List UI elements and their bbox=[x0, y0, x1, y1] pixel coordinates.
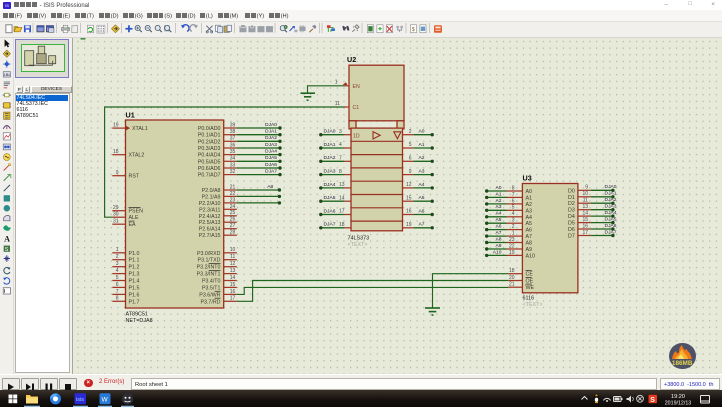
svg-text:A9: A9 bbox=[496, 243, 502, 249]
svg-text:DJA5: DJA5 bbox=[265, 155, 277, 161]
svg-text:XTAL2: XTAL2 bbox=[129, 153, 145, 159]
wire U1 P3.7/RD to U3 OE bbox=[237, 281, 509, 302]
U2 pin 19 Q7 (right) with net A7 bbox=[403, 227, 414, 229]
U3 pin 16 D6 (right) with net DJA6 bbox=[578, 228, 591, 230]
svg-text:P3.1/TXD: P3.1/TXD bbox=[198, 258, 221, 264]
svg-text:$: $ bbox=[412, 27, 415, 33]
svg-text:2: 2 bbox=[116, 254, 119, 260]
svg-text:P2.0/A8: P2.0/A8 bbox=[202, 188, 221, 194]
svg-text:A0: A0 bbox=[496, 185, 502, 191]
svg-text:1: 1 bbox=[512, 231, 515, 237]
svg-text:22: 22 bbox=[509, 243, 515, 249]
U1 pin 30 ALE (left) bbox=[112, 216, 125, 218]
U1 pin 13 P3.3/INT1 bbox=[224, 273, 237, 275]
svg-text:9: 9 bbox=[116, 170, 119, 176]
U1 pin 19 XTAL1 (left) bbox=[112, 127, 125, 129]
svg-text:LBL: LBL bbox=[4, 73, 11, 77]
svg-text:A2: A2 bbox=[496, 198, 502, 204]
svg-text:U1: U1 bbox=[126, 111, 135, 120]
svg-text:18: 18 bbox=[509, 268, 515, 274]
U2 pin 11 C1 stub bbox=[344, 106, 349, 108]
svg-text:6: 6 bbox=[512, 198, 515, 204]
overview window bbox=[15, 39, 69, 78]
window title bar bbox=[0, 0, 722, 10]
U3 pin 18 CE bbox=[508, 273, 522, 275]
U1 pin 38 P0.1/AD1 with wire to net DJA1 bbox=[224, 134, 237, 136]
svg-text:P1.0: P1.0 bbox=[129, 251, 140, 257]
U2 buffer triangle right bbox=[373, 132, 380, 139]
svg-text:DJA4: DJA4 bbox=[605, 210, 617, 216]
svg-text:38: 38 bbox=[230, 129, 236, 135]
U2 pin 7 D2 (left) with net DJA2 bbox=[344, 160, 351, 162]
svg-text:5: 5 bbox=[512, 205, 515, 211]
svg-text:A5: A5 bbox=[496, 217, 502, 223]
svg-text:P1.5: P1.5 bbox=[129, 285, 140, 291]
svg-text:DJA0: DJA0 bbox=[324, 129, 336, 135]
svg-text:19: 19 bbox=[406, 222, 412, 228]
U3 pin 23 A8 (left) with net A8 bbox=[507, 242, 523, 244]
svg-text:RST: RST bbox=[129, 174, 140, 180]
U2 pin 16 Q6 (right) with net A6 bbox=[403, 214, 414, 216]
latch U2 74LS373 control block bbox=[349, 65, 404, 121]
ground symbol at U2 EN bbox=[301, 92, 316, 94]
svg-text:32: 32 bbox=[230, 169, 236, 175]
left tool column bbox=[0, 38, 14, 374]
svg-text:A7: A7 bbox=[526, 234, 533, 240]
svg-text:P2.7/A15: P2.7/A15 bbox=[199, 233, 221, 239]
svg-text:19: 19 bbox=[113, 123, 119, 129]
svg-text:isis: isis bbox=[76, 397, 84, 403]
svg-text:A1: A1 bbox=[419, 142, 425, 148]
svg-text:23: 23 bbox=[509, 237, 515, 243]
U2 pin 4 D1 (left) with net DJA1 bbox=[344, 147, 351, 149]
windows taskbar bbox=[0, 390, 722, 407]
svg-text:19:20: 19:20 bbox=[671, 393, 685, 399]
svg-text:33: 33 bbox=[230, 162, 236, 168]
U1 pin 9 RST (left) bbox=[112, 175, 125, 177]
mcu U1 AT89C51 body bbox=[126, 120, 224, 308]
U1 P2.1 wire (net A9) bbox=[237, 195, 280, 197]
U1 pin 10 P3.0/RXD bbox=[224, 252, 237, 254]
svg-text:7: 7 bbox=[512, 192, 515, 198]
menu bar bbox=[0, 10, 722, 22]
U2 pin 5 Q1 (right) with net A1 bbox=[403, 147, 414, 149]
U1 pin 12 P3.2/INT0 bbox=[224, 266, 237, 268]
svg-text:7: 7 bbox=[116, 289, 119, 295]
svg-text:DJA6: DJA6 bbox=[605, 223, 617, 229]
svg-text:11: 11 bbox=[335, 101, 340, 107]
svg-text:14: 14 bbox=[582, 211, 588, 217]
toolbar bbox=[0, 22, 722, 38]
U1 pin 2 P1.1 (left) bbox=[112, 259, 125, 261]
svg-text:19: 19 bbox=[509, 250, 515, 256]
svg-text:OE: OE bbox=[526, 279, 534, 285]
U2 pin 8 D3 (left) with net DJA3 bbox=[344, 174, 351, 176]
svg-text:24: 24 bbox=[230, 204, 236, 210]
U3 pin 17 D7 (right) with net DJA7 bbox=[578, 235, 591, 237]
svg-text:6: 6 bbox=[409, 156, 412, 162]
U3 pin 11 D2 (right) with net DJA2 bbox=[578, 202, 591, 204]
svg-text:3: 3 bbox=[116, 261, 119, 267]
U2 pin 14 D5 (left) with net DJA5 bbox=[344, 200, 351, 202]
U3 pin 10 D1 (right) with net DJA1 bbox=[578, 196, 591, 198]
svg-text:16: 16 bbox=[582, 223, 588, 229]
device list bbox=[15, 93, 71, 373]
svg-text:DJA1: DJA1 bbox=[324, 142, 336, 148]
U1 pin 6 P1.5 (left) bbox=[112, 286, 125, 288]
svg-text:D5: D5 bbox=[568, 221, 575, 227]
svg-text:A2: A2 bbox=[526, 202, 533, 208]
svg-text:DJA2: DJA2 bbox=[324, 155, 336, 161]
svg-text:A10: A10 bbox=[493, 249, 502, 255]
U1 pin 26 P2.5/A13 bbox=[224, 221, 237, 223]
svg-text:W: W bbox=[102, 396, 109, 403]
U3 pin 13 D3 (right) with net DJA3 bbox=[578, 209, 591, 211]
svg-text:13: 13 bbox=[582, 204, 588, 210]
svg-text:11: 11 bbox=[583, 198, 588, 204]
wire U2 EN to ground bbox=[308, 86, 345, 93]
svg-text:ALE: ALE bbox=[129, 215, 139, 221]
svg-text:8: 8 bbox=[116, 296, 119, 302]
svg-text:P0.4/AD4: P0.4/AD4 bbox=[198, 153, 221, 159]
U2 pin 1 EN stub and marker bbox=[344, 85, 349, 87]
svg-text:5: 5 bbox=[409, 142, 412, 148]
svg-text:DJA0: DJA0 bbox=[605, 184, 617, 190]
svg-text:DJA6: DJA6 bbox=[265, 162, 277, 168]
U2 pin 2 Q0 (right) with net A0 bbox=[403, 134, 414, 136]
U1 pin 27 P2.6/A14 bbox=[224, 228, 237, 230]
svg-text:P2.4/A12: P2.4/A12 bbox=[199, 214, 221, 220]
U1 pin 31 EA (left) bbox=[112, 223, 125, 225]
svg-text:CE: CE bbox=[526, 272, 534, 278]
svg-text:3: 3 bbox=[512, 218, 515, 224]
U1 pin 32 P0.7/AD7 with wire to net DJA7 bbox=[224, 174, 237, 176]
U3 pin 20 OE bbox=[508, 280, 522, 282]
U1 pin 5 P1.4 (left) bbox=[112, 280, 125, 282]
wire ALE to U2 C1 bbox=[105, 107, 345, 217]
svg-text:NET=DJA8: NET=DJA8 bbox=[126, 318, 153, 324]
U1 pin 8 P1.7 (left) bbox=[112, 300, 125, 302]
svg-text:12: 12 bbox=[230, 261, 236, 267]
U1 pin 24 P2.3/A11 bbox=[224, 208, 237, 210]
svg-text:7: 7 bbox=[339, 156, 342, 162]
svg-text:A0: A0 bbox=[526, 189, 533, 195]
svg-text:EN: EN bbox=[353, 84, 360, 90]
svg-text:A1: A1 bbox=[496, 191, 502, 197]
U1 pin 3 P1.2 (left) bbox=[112, 266, 125, 268]
schematic canvas bbox=[72, 38, 722, 374]
svg-text:S: S bbox=[5, 247, 9, 253]
U1 pin 37 P0.2/AD2 with wire to net DJA2 bbox=[224, 140, 237, 142]
svg-text:74LS373: 74LS373 bbox=[348, 236, 370, 242]
svg-text:P3.3/INT1: P3.3/INT1 bbox=[197, 272, 221, 278]
svg-text:C1: C1 bbox=[353, 105, 360, 111]
svg-text:A7: A7 bbox=[419, 222, 425, 228]
svg-text:8: 8 bbox=[512, 185, 515, 191]
svg-text:P2.6/A14: P2.6/A14 bbox=[199, 227, 221, 233]
svg-text:15: 15 bbox=[406, 195, 412, 201]
U3 pin 3 A5 (left) with net A5 bbox=[507, 222, 523, 224]
svg-text:P0.1/AD1: P0.1/AD1 bbox=[198, 133, 221, 139]
svg-text:13: 13 bbox=[339, 182, 345, 188]
svg-text:A6: A6 bbox=[526, 228, 533, 234]
svg-text:14: 14 bbox=[230, 275, 236, 281]
svg-text:A2: A2 bbox=[419, 155, 425, 161]
svg-text:DJA2: DJA2 bbox=[605, 197, 617, 203]
svg-text:15: 15 bbox=[230, 282, 236, 288]
U1 pin 29 PSEN (left) bbox=[112, 210, 125, 212]
svg-text:16: 16 bbox=[230, 289, 236, 295]
U1 pin 16 P3.6/WR bbox=[224, 293, 237, 295]
U3 pin 8 A0 (left) with net A0 bbox=[507, 190, 523, 192]
svg-text:XTAL1: XTAL1 bbox=[132, 126, 148, 132]
svg-text:A7: A7 bbox=[496, 230, 502, 236]
svg-text:DJA7: DJA7 bbox=[324, 222, 336, 228]
svg-text:1D: 1D bbox=[353, 134, 360, 140]
U2 cell separators bbox=[351, 140, 403, 142]
svg-text:12: 12 bbox=[406, 182, 412, 188]
left object panel bbox=[14, 38, 72, 374]
svg-text:U2: U2 bbox=[347, 55, 356, 64]
svg-text:18: 18 bbox=[339, 222, 345, 228]
svg-text:9: 9 bbox=[585, 185, 588, 191]
svg-text:P0.7/AD7: P0.7/AD7 bbox=[198, 173, 221, 179]
svg-text:A0: A0 bbox=[419, 129, 425, 135]
svg-text:P3.5/T1: P3.5/T1 bbox=[202, 285, 221, 291]
U1 pin 34 P0.5/AD5 with wire to net DJA5 bbox=[224, 160, 237, 162]
svg-text:DJA6: DJA6 bbox=[324, 208, 336, 214]
svg-text:U3: U3 bbox=[523, 174, 532, 183]
svg-text:DJA1: DJA1 bbox=[265, 129, 277, 135]
U2 pin 13 D4 (left) with net DJA4 bbox=[344, 187, 351, 189]
svg-text:DJA3: DJA3 bbox=[265, 142, 277, 148]
svg-text:4: 4 bbox=[512, 211, 515, 217]
svg-text:A4: A4 bbox=[526, 215, 533, 221]
wire U1 P3.6/WR to U3 WE bbox=[237, 287, 509, 294]
U1 pin 4 P1.3 (left) bbox=[112, 273, 125, 275]
svg-text:17: 17 bbox=[339, 209, 345, 215]
svg-text:P1.4: P1.4 bbox=[129, 279, 140, 285]
svg-text:39: 39 bbox=[230, 122, 236, 128]
svg-text:3: 3 bbox=[339, 129, 342, 135]
svg-text:P0.5/AD5: P0.5/AD5 bbox=[198, 159, 221, 165]
svg-text:A5: A5 bbox=[526, 221, 533, 227]
svg-text:4: 4 bbox=[339, 142, 342, 148]
svg-text:DJA3: DJA3 bbox=[324, 169, 336, 175]
svg-text:P2.5/A13: P2.5/A13 bbox=[199, 220, 221, 226]
U3 pin 1 A7 (left) with net A7 bbox=[507, 235, 523, 237]
U3 pin 14 D4 (right) with net DJA4 bbox=[578, 215, 591, 217]
U3 pin 22 A9 (left) with net A9 bbox=[507, 248, 523, 250]
svg-text:16: 16 bbox=[406, 209, 412, 215]
U2 pin 6 Q2 (right) with net A2 bbox=[403, 160, 414, 162]
ground symbol near U3 CE bbox=[425, 307, 440, 309]
svg-text:A: A bbox=[4, 234, 10, 243]
error indicator bbox=[84, 379, 93, 388]
svg-text:21: 21 bbox=[509, 282, 515, 288]
U1 pin 25 P2.4/A12 bbox=[224, 215, 237, 217]
svg-text:A4: A4 bbox=[496, 211, 502, 217]
svg-text:28: 28 bbox=[230, 230, 236, 236]
svg-text:A3: A3 bbox=[419, 169, 425, 175]
svg-text:D2: D2 bbox=[568, 201, 575, 207]
svg-text:22: 22 bbox=[230, 191, 236, 197]
svg-text:14: 14 bbox=[339, 195, 345, 201]
U2 pin 17 D6 (left) with net DJA6 bbox=[344, 214, 351, 216]
svg-text:D4: D4 bbox=[568, 214, 575, 220]
svg-text:P2.2/A10: P2.2/A10 bbox=[199, 201, 221, 207]
svg-text:WE: WE bbox=[526, 285, 535, 291]
svg-text:18: 18 bbox=[113, 149, 119, 155]
svg-text:17: 17 bbox=[230, 296, 236, 302]
svg-text:P0.6/AD6: P0.6/AD6 bbox=[198, 166, 221, 172]
U1 pin 1 P1.0 (left) bbox=[112, 252, 125, 254]
svg-text:A8: A8 bbox=[526, 241, 533, 247]
svg-text:DJA1: DJA1 bbox=[605, 191, 617, 197]
svg-text:DJA2: DJA2 bbox=[265, 135, 277, 141]
U2 pin 12 Q4 (right) with net A4 bbox=[403, 187, 414, 189]
svg-text:D3: D3 bbox=[568, 208, 575, 214]
svg-text:DJA0: DJA0 bbox=[265, 122, 277, 128]
svg-text:4: 4 bbox=[116, 268, 119, 274]
svg-text:A8: A8 bbox=[496, 236, 502, 242]
svg-text:10: 10 bbox=[230, 247, 236, 253]
svg-text:DJA5: DJA5 bbox=[605, 217, 617, 223]
U1 pin 28 P2.7/A15 bbox=[224, 234, 237, 236]
svg-text:21: 21 bbox=[230, 184, 236, 190]
svg-text:A5: A5 bbox=[419, 195, 425, 201]
U2 data block bbox=[351, 128, 403, 231]
svg-text:35: 35 bbox=[230, 149, 236, 155]
svg-text:11: 11 bbox=[230, 254, 235, 260]
svg-text:10: 10 bbox=[582, 191, 588, 197]
svg-text:P3.4/T0: P3.4/T0 bbox=[202, 279, 221, 285]
svg-text:A3: A3 bbox=[526, 208, 533, 214]
svg-text:186MB: 186MB bbox=[672, 359, 693, 366]
svg-text:8: 8 bbox=[339, 169, 342, 175]
U3 pin 9 D0 (right) with net DJA0 bbox=[578, 189, 591, 191]
svg-text:26: 26 bbox=[230, 217, 236, 223]
U1 pin 36 P0.3/AD3 with wire to net DJA3 bbox=[224, 147, 237, 149]
svg-text:A10: A10 bbox=[526, 253, 535, 259]
U1 pin 35 P0.4/AD4 with wire to net DJA4 bbox=[224, 154, 237, 156]
wire ground to U3 CE bbox=[433, 274, 509, 308]
U1 pin 15 P3.5/T1 bbox=[224, 286, 237, 288]
U1 pin 14 P3.4/T0 bbox=[224, 280, 237, 282]
svg-text:27: 27 bbox=[230, 223, 236, 229]
svg-text:2: 2 bbox=[512, 224, 515, 230]
svg-text:PSEN: PSEN bbox=[129, 209, 144, 215]
svg-text:P1.1: P1.1 bbox=[129, 258, 140, 264]
svg-text:A6: A6 bbox=[419, 208, 425, 214]
svg-text:P1.2: P1.2 bbox=[129, 265, 140, 271]
U1 pin 23 P2.2/A10 bbox=[224, 202, 237, 204]
U3 pin 4 A4 (left) with net A4 bbox=[507, 216, 523, 218]
svg-text:2019/12/13: 2019/12/13 bbox=[665, 400, 692, 406]
svg-text:5: 5 bbox=[116, 275, 119, 281]
U2 pin 9 Q3 (right) with net A3 bbox=[403, 174, 414, 176]
svg-text:6116: 6116 bbox=[523, 296, 535, 302]
sram U3 6116 body bbox=[522, 184, 578, 293]
U3 pin 6 A2 (left) with net A2 bbox=[507, 203, 523, 205]
svg-text:34: 34 bbox=[230, 156, 236, 162]
svg-text:<TEXT>: <TEXT> bbox=[348, 242, 368, 248]
svg-text:DJA5: DJA5 bbox=[324, 195, 336, 201]
U3 pin 19 A10 (left) with net A10 bbox=[507, 254, 523, 256]
status bar bbox=[0, 374, 722, 390]
svg-text:P0.3/AD3: P0.3/AD3 bbox=[198, 146, 221, 152]
U2 body neck tabs bbox=[349, 121, 356, 129]
svg-text:D0: D0 bbox=[568, 188, 575, 194]
svg-text:36: 36 bbox=[230, 142, 236, 148]
U1 pin 11 P3.1/TXD bbox=[224, 259, 237, 261]
svg-text:P1.7: P1.7 bbox=[129, 299, 140, 305]
U1 P2.2 wire (net A10) bbox=[237, 202, 280, 204]
svg-text:D7: D7 bbox=[568, 234, 575, 240]
U3 pin 7 A1 (left) with net A1 bbox=[507, 196, 523, 198]
svg-text:1: 1 bbox=[116, 247, 119, 253]
U2 buffer triangle down bbox=[394, 132, 401, 139]
svg-text:P2.3/A11: P2.3/A11 bbox=[199, 207, 220, 213]
U3 pin 21 WE bbox=[508, 286, 522, 288]
svg-text:20: 20 bbox=[509, 275, 515, 281]
svg-text:DJA3: DJA3 bbox=[605, 204, 617, 210]
P/L buttons + devices header bbox=[16, 86, 72, 93]
svg-text:1: 1 bbox=[335, 80, 338, 86]
svg-text:A3: A3 bbox=[496, 204, 502, 210]
svg-text:37: 37 bbox=[230, 136, 236, 142]
svg-text:29: 29 bbox=[113, 205, 119, 211]
U1 pin 18 XTAL2 (left) bbox=[112, 154, 125, 156]
U2 pin 18 D7 (left) with net DJA7 bbox=[344, 227, 351, 229]
U3 pin 15 D5 (right) with net DJA5 bbox=[578, 222, 591, 224]
U1 pin 17 P3.7/RD bbox=[224, 300, 237, 302]
U1 XTAL1 clock arrow bbox=[126, 126, 131, 131]
svg-text:2: 2 bbox=[409, 129, 412, 135]
svg-text:25: 25 bbox=[230, 210, 236, 216]
svg-text:31: 31 bbox=[113, 219, 119, 225]
svg-text:<TEXT>: <TEXT> bbox=[523, 302, 543, 308]
svg-text:EA: EA bbox=[129, 222, 137, 228]
svg-text:A8: A8 bbox=[267, 184, 273, 190]
svg-text:P0.0/AD0: P0.0/AD0 bbox=[198, 126, 221, 132]
U1 pin 7 P1.6 (left) bbox=[112, 293, 125, 295]
svg-text:DJA4: DJA4 bbox=[265, 149, 277, 155]
svg-text:17: 17 bbox=[582, 230, 588, 236]
svg-text:DJA7: DJA7 bbox=[265, 169, 277, 175]
U1 pin 33 P0.6/AD6 with wire to net DJA6 bbox=[224, 167, 237, 169]
svg-text:A1: A1 bbox=[526, 195, 533, 201]
svg-text:P1.6: P1.6 bbox=[129, 292, 140, 298]
U1 pin 39 P0.0/AD0 with wire to net DJA0 bbox=[224, 127, 237, 129]
svg-text:D1: D1 bbox=[568, 195, 575, 201]
svg-text:P0.2/AD2: P0.2/AD2 bbox=[198, 139, 221, 145]
svg-text:A9: A9 bbox=[526, 247, 533, 253]
svg-text:23: 23 bbox=[230, 197, 236, 203]
U2 pin 3 D0 (left) with net DJA0 bbox=[344, 134, 351, 136]
memory widget ball bbox=[669, 343, 696, 370]
U1 pin 21 P2.0/A8 bbox=[224, 189, 237, 191]
svg-text:A6: A6 bbox=[496, 224, 502, 230]
svg-text:P3.0/RXD: P3.0/RXD bbox=[197, 251, 221, 257]
svg-text:6: 6 bbox=[116, 282, 119, 288]
svg-text:30: 30 bbox=[113, 212, 119, 218]
svg-text:P3.2/INT0: P3.2/INT0 bbox=[197, 265, 221, 271]
U1 P2.0 wire (net A8) bbox=[237, 189, 280, 191]
svg-text:S: S bbox=[650, 396, 655, 403]
U1 pin 22 P2.1/A9 bbox=[224, 195, 237, 197]
svg-text:DJA4: DJA4 bbox=[324, 182, 336, 188]
